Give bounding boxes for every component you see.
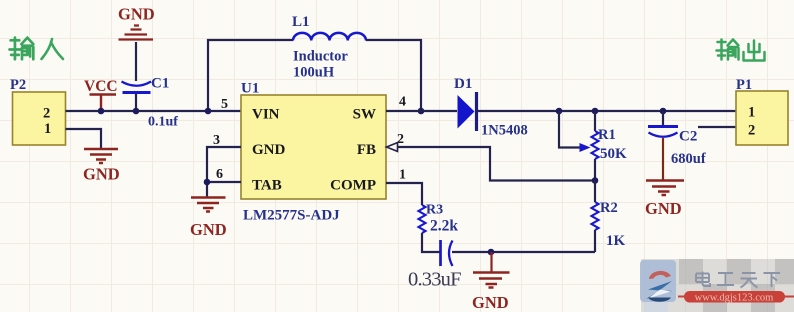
svg-text:100uH: 100uH <box>293 65 335 81</box>
wire R1 wiper branch <box>559 111 580 148</box>
R1 wiper arrow <box>580 143 591 152</box>
svg-text:www.dgjs123.com: www.dgjs123.com <box>695 293 774 304</box>
inductor L1 <box>292 14 366 81</box>
svg-text:Inductor: Inductor <box>293 49 348 65</box>
node: C1 junction <box>133 108 140 115</box>
svg-text:1: 1 <box>44 121 51 137</box>
svg-text:0.1uf: 0.1uf <box>148 115 178 130</box>
svg-text:R2: R2 <box>600 200 618 216</box>
capacitor C2 <box>648 111 706 167</box>
power port VCC <box>84 78 118 111</box>
svg-text:GND: GND <box>472 293 509 312</box>
node: R1/R2/FB junction <box>592 177 599 184</box>
svg-text:GND: GND <box>645 199 682 218</box>
wire P2 pin2 to U1 VIN (main input net) <box>66 110 242 112</box>
svg-text:680uf: 680uf <box>671 151 706 167</box>
svg-text:R3: R3 <box>426 203 443 218</box>
svg-text:LM2577S-ADJ: LM2577S-ADJ <box>243 208 340 224</box>
wire COMP to R3 <box>386 183 422 205</box>
node: R1 top junction <box>592 108 599 115</box>
node: VCC junction <box>98 108 105 115</box>
op-amp / regulator U1 LM2577S-ADJ <box>241 81 386 224</box>
label 输入 (input) <box>10 38 63 60</box>
svg-text:3: 3 <box>213 133 220 148</box>
svg-text:2: 2 <box>748 123 755 139</box>
ground GND (above C1, inverted) <box>118 5 155 40</box>
node: L1 right junction (SW net) <box>418 108 425 115</box>
FB input arrow at U1 <box>387 143 398 152</box>
svg-text:GND: GND <box>252 142 286 158</box>
node: L1 left junction <box>205 108 212 115</box>
svg-text:SW: SW <box>353 107 376 123</box>
node: wiper branch junction <box>556 108 563 115</box>
resistor R2 <box>592 181 626 253</box>
ground GND (C2) <box>645 181 684 219</box>
connector P1 <box>736 77 788 145</box>
capacitor C1 <box>122 42 179 130</box>
svg-text:1N5408: 1N5408 <box>481 123 528 139</box>
svg-text:D1: D1 <box>454 76 472 92</box>
svg-text:FB: FB <box>357 142 376 158</box>
wire SW to diode anode <box>386 110 457 112</box>
watermark 电工天下 <box>640 259 794 312</box>
wire capacitor to R2 bottom <box>452 251 595 253</box>
wire FB net: U1 pin2 to R1/R2 junction <box>397 147 595 181</box>
resistor R3 <box>419 203 459 235</box>
wire L1 branch (right riser) <box>366 40 421 111</box>
svg-text:50K: 50K <box>600 146 627 162</box>
svg-text:1: 1 <box>399 168 406 183</box>
wire R3 to capacitor <box>422 233 440 252</box>
ground GND (below P2 pin1) <box>83 149 120 184</box>
node: pin3/pin6 junction <box>204 179 211 186</box>
svg-text:U1: U1 <box>241 81 259 97</box>
svg-text:TAB: TAB <box>252 178 282 194</box>
diode D1 1N5408 <box>454 76 528 139</box>
svg-text:GND: GND <box>83 165 120 184</box>
node: bottom GND junction <box>488 249 495 256</box>
svg-text:5: 5 <box>221 97 228 112</box>
wire L1 branch (left riser) <box>208 40 293 111</box>
capacitor 0.33uF <box>408 240 461 291</box>
wire P2 pin1 to GND <box>66 129 102 149</box>
svg-text:P1: P1 <box>736 77 752 93</box>
svg-text:0.33uF: 0.33uF <box>408 269 461 291</box>
wire diode cathode to P1 (output net) <box>477 110 736 112</box>
label 输出 (output) <box>717 40 765 61</box>
ground GND (bottom middle) <box>472 252 510 312</box>
wire P1 pin2 <box>698 126 736 128</box>
svg-text:VIN: VIN <box>252 107 280 123</box>
svg-text:1K: 1K <box>606 233 626 249</box>
svg-text:4: 4 <box>399 95 406 110</box>
connector P2 <box>10 77 66 145</box>
wire C2 to ground <box>662 138 664 180</box>
svg-text:C2: C2 <box>679 129 697 145</box>
svg-text:COMP: COMP <box>330 178 376 194</box>
svg-text:2.2k: 2.2k <box>430 218 458 235</box>
svg-text:GND: GND <box>118 5 155 24</box>
svg-text:VCC: VCC <box>84 78 118 95</box>
svg-text:1: 1 <box>748 105 755 121</box>
node: C2 junction <box>660 108 667 115</box>
svg-text:2: 2 <box>43 106 50 122</box>
ground GND (U1 TAB) <box>190 198 227 240</box>
resistor R1 (potentiometer 50K) <box>592 111 628 180</box>
svg-text:P2: P2 <box>10 77 26 93</box>
svg-text:R1: R1 <box>598 127 616 143</box>
svg-text:6: 6 <box>216 167 223 182</box>
svg-text:GND: GND <box>190 220 227 239</box>
wire U1 pin3/pin6 to ground <box>207 147 241 197</box>
svg-text:C1: C1 <box>151 76 169 92</box>
svg-text:L1: L1 <box>292 14 310 30</box>
